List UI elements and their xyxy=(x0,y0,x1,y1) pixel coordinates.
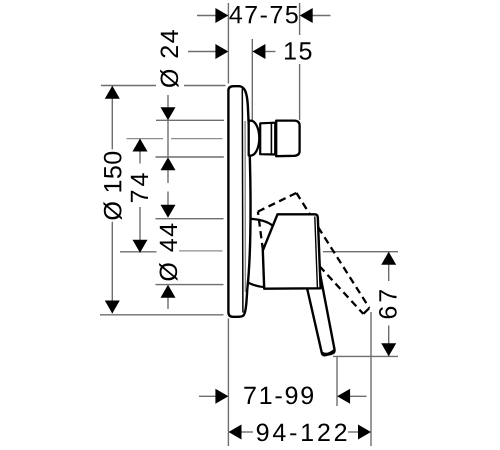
text 71-99 xyxy=(244,387,313,405)
dim line 94-122 left segment xyxy=(241,431,253,433)
dashed-lever tip extension line x=371 xyxy=(370,312,372,446)
arrow O150 top (up) xyxy=(105,86,120,99)
dim line O150 x=112.3 xyxy=(111,86,113,313)
arrow 94-122 left (points left) xyxy=(229,425,242,440)
dashed lever tip cap xyxy=(364,308,370,314)
lever (drawn behind body) xyxy=(307,273,335,356)
text 67 xyxy=(379,290,397,318)
arrow 47-75 right xyxy=(300,8,313,23)
arrow 67 top (up) xyxy=(381,252,396,265)
dim line O44 bottom stub x=168 xyxy=(167,298,169,310)
leader 47-75 right xyxy=(312,15,331,17)
arrow 67 bottom (down) xyxy=(381,343,396,356)
dim line 74 x=140 xyxy=(139,139,141,253)
arrow 15 right xyxy=(252,44,265,59)
dashed left edge xyxy=(258,212,263,250)
handle flange top arc xyxy=(251,219,273,226)
plate rim step line xyxy=(244,121,246,292)
spout top extension line y=120.3 xyxy=(156,119,224,121)
74 bottom line y=251.8 xyxy=(120,251,157,253)
handle centerline y=250.9 xyxy=(179,250,223,252)
67 bottom extension line y=356.4 xyxy=(333,355,398,357)
spout cylinder inner edge line xyxy=(270,123,272,155)
wall extension line x=228.5 bottom xyxy=(227,319,229,447)
arrow 74 top (up) xyxy=(133,139,148,152)
leader 47-75 left xyxy=(197,15,216,17)
plate top extension line y=85.5 xyxy=(101,85,226,87)
text 47-75 xyxy=(229,6,297,23)
arrow 47-75 left xyxy=(215,8,228,23)
dimension arrows (black) xyxy=(105,8,396,440)
dim line 67 x=388.7 xyxy=(388,252,390,356)
arrow O24 bottom (up) xyxy=(161,157,176,170)
arrow 71-99 right xyxy=(337,389,350,404)
wall extension line x=228.5 top xyxy=(227,3,229,84)
dim line 94-122 right segment xyxy=(348,431,358,433)
dashed top-right edge lower part (lever upper) xyxy=(318,227,369,308)
arrow O24 top (down) xyxy=(161,107,176,120)
handle body inner edge line xyxy=(315,217,318,288)
dashed top-left edge xyxy=(258,193,297,212)
text O24 xyxy=(160,30,179,87)
handle flange top extension line y=218.7 xyxy=(156,218,224,220)
text O44 xyxy=(159,224,178,281)
spout middle cylinder xyxy=(260,123,275,155)
plate face extension line x=252.3 xyxy=(251,39,253,121)
arrow 94-122 right (points right) xyxy=(358,425,371,440)
dashed handle alternate position xyxy=(258,193,370,314)
text 15 xyxy=(285,42,311,59)
lever tip cap xyxy=(322,350,334,354)
lever tip extension line x=337 xyxy=(336,357,338,406)
text O150 xyxy=(103,152,122,220)
spout end cap xyxy=(276,121,299,157)
plate inner face line xyxy=(241,89,244,313)
arrow O150 bottom (down) xyxy=(105,301,120,314)
text 74 xyxy=(131,173,148,202)
plate bottom extension line y=314.8 xyxy=(100,314,224,316)
arrow O44 bottom (up) xyxy=(161,285,176,298)
thin extension / leader lines xyxy=(100,3,398,446)
arrow 71-99 left xyxy=(215,389,228,404)
arrow 74 bottom (down) xyxy=(133,240,148,253)
leader 15 right xyxy=(264,51,276,53)
dashed lever lower edge xyxy=(320,266,364,314)
67 top extension line y=251.7 xyxy=(323,251,398,253)
text 94-122 xyxy=(257,424,347,442)
leader 15 left xyxy=(188,51,216,53)
arrow O44 top (down) xyxy=(161,205,176,218)
centerlines (lighter) xyxy=(127,139,223,251)
spout flange (dome on plate) xyxy=(249,121,260,156)
leader 71-99 left xyxy=(199,395,216,397)
handle flange bottom arc xyxy=(249,283,265,287)
handle flange bottom extension line y=284.6 xyxy=(156,284,224,286)
handle body xyxy=(263,214,321,288)
leader 71-99 right xyxy=(349,395,367,397)
dim line O24 x=168 xyxy=(167,95,169,205)
dashed top-right edge upper part xyxy=(296,193,309,214)
arrow 15 left xyxy=(215,44,228,59)
spout bottom extension line y=157 xyxy=(156,156,224,158)
spout tip extension line x=299.6 lower xyxy=(299,64,301,120)
spout tip extension line x=299.6 upper xyxy=(299,3,301,35)
spout centerline y=138.6 xyxy=(127,138,223,140)
escutcheon plate (side view) xyxy=(228,86,250,317)
